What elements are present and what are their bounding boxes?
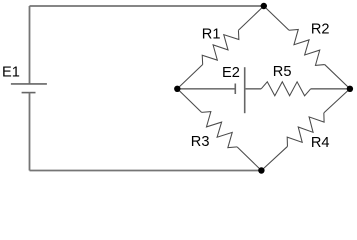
wire bottom from corner to bottom node bbox=[30, 170, 262, 172]
wire top from E1 loop to top node bbox=[30, 5, 264, 7]
svg-text:R1: R1 bbox=[202, 26, 221, 42]
wire left upper (top corner down to E1 plus plate) bbox=[29, 6, 31, 84]
wire bottom node to R4 bbox=[261, 146, 287, 170]
node bottom bbox=[258, 167, 264, 173]
wire left node to E2 minus plate bbox=[177, 88, 235, 90]
wire left node to R3 bbox=[177, 89, 201, 113]
wire R5 to right node bbox=[311, 88, 350, 90]
wire left lower (E1 minus plate down to bottom corner) bbox=[29, 93, 31, 171]
wire left node to R1 bbox=[177, 65, 202, 89]
svg-text:R5: R5 bbox=[273, 64, 292, 80]
resistor R2 bbox=[289, 29, 325, 65]
resistor R1 bbox=[202, 30, 239, 64]
svg-text:R2: R2 bbox=[311, 22, 330, 38]
node top bbox=[261, 3, 267, 9]
resistor R3 bbox=[202, 112, 238, 148]
wire top node to R2 bbox=[264, 6, 289, 30]
resistor R4 bbox=[287, 113, 324, 147]
svg-text:E2: E2 bbox=[222, 65, 240, 81]
wire R1 to top node bbox=[238, 6, 263, 30]
wire R4 to right node bbox=[324, 89, 350, 113]
svg-text:R3: R3 bbox=[191, 134, 210, 150]
wire R2 to right node bbox=[325, 65, 350, 89]
wire E2 plus plate to R5 bbox=[245, 88, 262, 90]
wire R3 to bottom node bbox=[237, 147, 261, 171]
svg-text:R4: R4 bbox=[311, 135, 330, 151]
node left bbox=[174, 86, 180, 92]
svg-text:E1: E1 bbox=[2, 64, 20, 80]
battery E1 bbox=[11, 84, 47, 93]
node right bbox=[347, 86, 353, 92]
battery E2 bbox=[235, 67, 244, 113]
resistor R5 bbox=[261, 82, 311, 96]
